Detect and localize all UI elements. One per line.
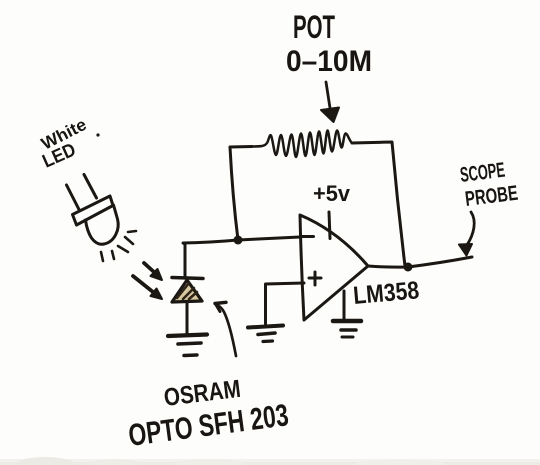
svg-text:LM358: LM358 — [352, 276, 420, 310]
svg-text:POT: POT — [293, 9, 335, 45]
svg-text:+5v: +5v — [313, 181, 351, 206]
svg-text:0–10M: 0–10M — [286, 45, 372, 78]
